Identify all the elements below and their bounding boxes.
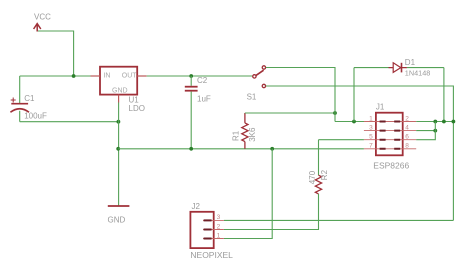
op-amp U1 LDO box xyxy=(100,67,137,95)
node junction D1 anode riser row1 xyxy=(352,120,356,124)
switch S1 xyxy=(253,66,266,88)
wire row2 to risers xyxy=(416,121,453,123)
svg-text:C2: C2 xyxy=(197,76,208,85)
J2 pin lines xyxy=(203,220,224,238)
svg-text:100uF: 100uF xyxy=(24,112,47,121)
svg-text:1N4148: 1N4148 xyxy=(405,68,431,77)
svg-text:D1: D1 xyxy=(405,58,416,67)
svg-text:NEOPIXEL: NEOPIXEL xyxy=(190,250,233,260)
wire C2 top xyxy=(190,76,192,86)
pin OUT stub xyxy=(137,75,147,77)
node junction VCC/top-rail xyxy=(72,74,76,78)
wire D1 anode riser xyxy=(353,68,355,122)
resistor R2 xyxy=(315,175,321,194)
wire R2 bottom to J2 pin2 xyxy=(224,194,319,230)
svg-text:7: 7 xyxy=(369,143,373,150)
svg-text:C1: C1 xyxy=(24,94,35,103)
svg-text:OUT: OUT xyxy=(122,73,138,80)
svg-text:1: 1 xyxy=(369,115,373,122)
wire D1 cathode drop xyxy=(443,68,445,122)
svg-text:J2: J2 xyxy=(192,202,201,211)
ground xyxy=(108,205,130,207)
wire bottom-left rail xyxy=(20,121,119,123)
node junction J2pin1 riser xyxy=(270,147,274,151)
node junction row2 x435 xyxy=(433,120,437,124)
svg-text:ESP8266: ESP8266 xyxy=(373,160,409,170)
svg-text:2: 2 xyxy=(217,223,221,230)
node junction row2 D1 xyxy=(442,120,446,124)
svg-text:LDO: LDO xyxy=(129,104,145,113)
connector J2 xyxy=(190,212,213,248)
wire J2 pin1 riser xyxy=(224,149,272,239)
wire D1 horizontal xyxy=(354,67,444,69)
svg-text:GND: GND xyxy=(112,88,128,95)
J2 pads xyxy=(204,220,212,238)
J1 pin numbers left xyxy=(369,115,373,149)
node junction row2 switch riser xyxy=(452,120,456,124)
wire top rail C1 to LDO IN xyxy=(20,75,91,77)
svg-text:1uF: 1uF xyxy=(197,95,211,104)
node junction R1-rail riser xyxy=(333,111,337,115)
svg-text:R2: R2 xyxy=(320,169,329,180)
node junction row4 xyxy=(433,129,437,133)
svg-text:6: 6 xyxy=(405,134,409,141)
node junction GND rail xyxy=(116,147,120,151)
C1 plus sign xyxy=(11,98,16,103)
wire C2 bottom xyxy=(190,92,192,149)
wire row4 xyxy=(416,130,435,132)
wire C1 top xyxy=(19,76,21,103)
svg-text:3: 3 xyxy=(217,214,221,221)
diode D1 xyxy=(389,63,407,73)
wire OUT rail to switch xyxy=(147,75,253,77)
pin IN stub xyxy=(91,75,101,77)
svg-text:1: 1 xyxy=(217,232,221,239)
pin GND stub xyxy=(118,95,120,103)
svg-text:470: 470 xyxy=(308,170,317,184)
VCC symbol xyxy=(34,24,41,32)
wire C1 bottom xyxy=(19,111,21,122)
J1 pin numbers right xyxy=(405,115,409,149)
wire row1 from riser to J1 pin1 xyxy=(335,121,366,123)
wire R1 top rail xyxy=(245,112,335,114)
wire GND rail to J1 pin7 xyxy=(118,148,364,150)
J2 pin numbers xyxy=(217,214,221,239)
wire R2 top xyxy=(318,140,320,176)
svg-text:J1: J1 xyxy=(376,103,385,112)
wire bottom long to J2 pin3 xyxy=(224,219,454,221)
wire switch upper throw xyxy=(266,68,335,122)
svg-text:5: 5 xyxy=(369,134,373,141)
svg-text:3K6: 3K6 xyxy=(248,127,257,142)
wire GND vertical xyxy=(118,103,120,206)
node junction C2 bottom xyxy=(189,147,193,151)
node junction C1-rail / GND wire xyxy=(117,120,121,124)
svg-text:3: 3 xyxy=(369,124,373,131)
resistor R1 xyxy=(242,113,248,149)
svg-text:VCC: VCC xyxy=(34,13,51,22)
svg-text:S1: S1 xyxy=(247,93,257,102)
node junction C2 top xyxy=(189,74,193,78)
wire switch lower throw xyxy=(266,86,454,220)
wire VCC to rail xyxy=(37,31,73,76)
svg-text:R1: R1 xyxy=(232,130,241,141)
svg-text:4: 4 xyxy=(405,124,409,131)
capacitor C1 xyxy=(10,104,29,113)
svg-text:8: 8 xyxy=(405,143,409,150)
svg-text:GND: GND xyxy=(108,216,126,225)
J1 pads xyxy=(380,122,401,149)
J1 pin lines rows xyxy=(364,122,416,149)
svg-text:IN: IN xyxy=(103,73,110,80)
wire row5 to R2 xyxy=(319,139,364,141)
wire row6 riser xyxy=(416,122,435,140)
connector J1 xyxy=(376,113,403,156)
svg-text:2: 2 xyxy=(405,115,409,122)
capacitor C2 xyxy=(185,87,198,91)
